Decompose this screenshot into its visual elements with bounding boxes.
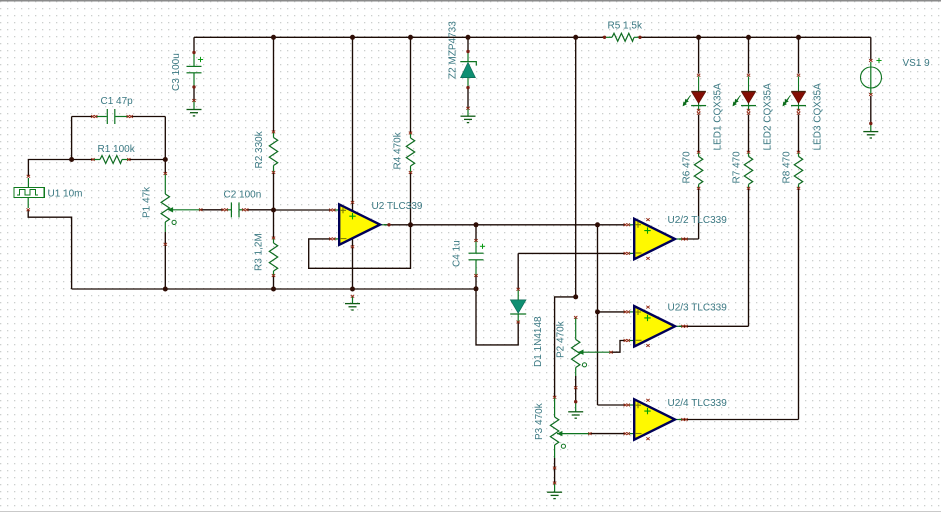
svg-text:D1 1N4148: D1 1N4148 xyxy=(533,316,544,367)
svg-text:Z2 MZP4733: Z2 MZP4733 xyxy=(448,21,459,79)
svg-text:R4 470k: R4 470k xyxy=(393,131,404,169)
svg-text:R3 1,2M: R3 1,2M xyxy=(254,233,265,271)
svg-text:C4 1u: C4 1u xyxy=(452,240,463,267)
svg-text:U2/2 TLC339: U2/2 TLC339 xyxy=(668,215,728,226)
svg-text:LED1 CQX35A: LED1 CQX35A xyxy=(713,83,724,151)
svg-text:U1 10m: U1 10m xyxy=(48,189,83,200)
svg-text:U2 TLC339: U2 TLC339 xyxy=(372,201,423,212)
svg-text:P2 470k: P2 470k xyxy=(556,320,567,358)
svg-text:R8 470: R8 470 xyxy=(782,151,793,184)
svg-text:U2/4 TLC339: U2/4 TLC339 xyxy=(668,398,728,409)
svg-text:U2/3 TLC339: U2/3 TLC339 xyxy=(668,303,728,314)
svg-text:C1 47p: C1 47p xyxy=(101,96,134,107)
svg-text:LED3 CQX35A: LED3 CQX35A xyxy=(813,83,824,151)
svg-text:R1 100k: R1 100k xyxy=(98,144,136,155)
svg-text:P1 47k: P1 47k xyxy=(142,186,153,218)
svg-text:VS1 9: VS1 9 xyxy=(903,58,931,69)
svg-text:R7 470: R7 470 xyxy=(732,151,743,184)
svg-text:R2 330k: R2 330k xyxy=(254,130,265,168)
svg-text:C3 100u: C3 100u xyxy=(171,53,182,91)
svg-text:LED2 CQX35A: LED2 CQX35A xyxy=(763,83,774,151)
svg-text:P3 470k: P3 470k xyxy=(534,402,545,440)
svg-text:R6 470: R6 470 xyxy=(682,151,693,184)
svg-text:C2 100n: C2 100n xyxy=(224,190,262,201)
svg-text:R5 1,5k: R5 1,5k xyxy=(608,21,643,32)
